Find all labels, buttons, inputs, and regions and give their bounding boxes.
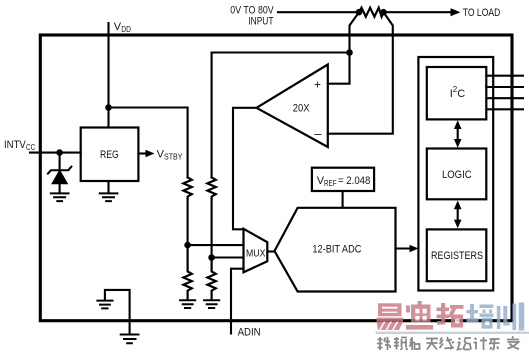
watermark slogan text <box>377 337 519 351</box>
wire VSTBY arrow <box>138 152 146 154</box>
wire R1 to tap <box>187 198 189 245</box>
node VDD label <box>114 21 131 34</box>
ground REG <box>100 193 118 201</box>
svg-text:–: – <box>314 126 322 141</box>
svg-text:+: + <box>314 78 321 92</box>
block VREF = 2.048 <box>312 168 374 191</box>
svg-text:12-BIT ADC: 12-BIT ADC <box>312 244 361 256</box>
svg-text:TO LOAD: TO LOAD <box>463 7 501 19</box>
svg-text:20X: 20X <box>293 103 310 115</box>
block LOGIC <box>427 149 487 200</box>
svg-text:C: C <box>457 88 465 100</box>
wire VDD pin into chip <box>107 23 109 128</box>
svg-text:ADIN: ADIN <box>238 327 261 339</box>
svg-text:DD: DD <box>121 25 131 34</box>
node VDD junction <box>105 104 112 111</box>
node ADIN label <box>238 327 261 339</box>
wire sense branch to divider R2 <box>212 53 350 178</box>
IC boundary box <box>40 35 512 321</box>
wire op-amp output to MUX <box>233 108 257 230</box>
wire LOGIC-REGISTERS double arrow <box>457 206 459 223</box>
wire VDD branch to resistor divider R1 <box>109 108 188 178</box>
node R2 tap junction <box>208 254 215 261</box>
block I2C <box>427 67 487 119</box>
block REGISTERS <box>427 229 487 281</box>
svg-text:CC: CC <box>26 143 35 152</box>
node shunt right junction <box>380 9 387 16</box>
wire GND pin <box>105 290 130 334</box>
node VSTBY label <box>157 148 183 161</box>
wire tap2 to MUX <box>212 256 244 258</box>
block REG <box>81 128 139 182</box>
block MUX <box>244 229 268 272</box>
resistor R3 <box>183 245 191 299</box>
block 12-BIT ADC <box>275 208 396 292</box>
block digital container <box>418 57 493 291</box>
wire ADC to registers arrow <box>396 247 411 249</box>
wire I2C bus lines <box>486 76 523 110</box>
wire tap1 to MUX <box>188 244 244 246</box>
resistor RSENSE shunt <box>359 8 384 17</box>
resistor R4 <box>207 258 215 300</box>
svg-text:= 2.048: = 2.048 <box>338 175 370 187</box>
node shunt left junction <box>356 9 363 16</box>
watermark logo big text <box>377 301 525 331</box>
node INTVCC junction <box>56 149 63 156</box>
resistor R1 <box>183 177 191 198</box>
wire R2 to tap <box>211 198 213 257</box>
wire ADIN pin <box>231 269 244 334</box>
ground internal <box>97 301 112 309</box>
ground external <box>121 335 139 344</box>
wire REG to ground <box>107 181 109 193</box>
wire INTVCC pin <box>30 152 81 154</box>
resistor R2 <box>207 177 215 198</box>
wire to load <box>384 11 452 13</box>
ground R3 <box>180 300 195 308</box>
node R1 tap junction <box>184 242 191 249</box>
node 0V TO 80V INPUT label <box>230 5 274 28</box>
wire I2C-LOGIC double arrow <box>457 126 459 143</box>
wire VREF to ADC <box>342 191 344 207</box>
node INTVCC label <box>4 139 35 152</box>
svg-text:REG: REG <box>100 149 119 161</box>
wire shunt right sense into chip <box>328 12 393 134</box>
op-amp 20X <box>257 65 328 148</box>
svg-text:STBY: STBY <box>164 153 183 162</box>
wire input to shunt <box>278 11 359 13</box>
node TO LOAD arrowhead <box>451 8 461 16</box>
node sense junction <box>346 49 353 56</box>
ground zener <box>51 193 69 201</box>
svg-text:MUX: MUX <box>246 248 266 259</box>
wire shunt left sense into chip <box>328 12 359 84</box>
watermark underline <box>376 332 529 334</box>
wire MUX output to ADC <box>267 250 274 252</box>
node TO LOAD label <box>463 7 501 19</box>
zener diode D1 <box>59 153 61 170</box>
svg-text:LOGIC: LOGIC <box>442 169 472 181</box>
svg-text:INTV: INTV <box>4 139 26 151</box>
svg-text:INPUT: INPUT <box>248 16 273 28</box>
ground R4 <box>204 300 219 308</box>
svg-text:REF: REF <box>324 179 337 188</box>
svg-text:REGISTERS: REGISTERS <box>431 250 483 262</box>
